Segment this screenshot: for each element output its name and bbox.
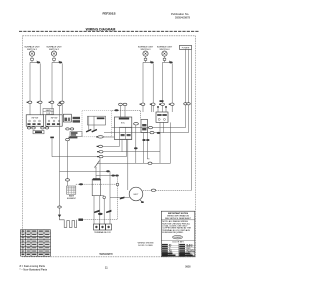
wire relay drop 1 — [151, 103, 153, 112]
notes box — [161, 211, 195, 257]
wire L2 feed lower — [191, 103, 193, 190]
connector bus oven select — [97, 155, 103, 157]
wire relay drop 4 — [170, 122, 172, 163]
splice on bake wire — [79, 183, 83, 185]
node P7 label — [78, 219, 83, 221]
wire thermostat connector lead — [103, 136, 114, 138]
connector right of EOC — [134, 123, 139, 125]
limiter fuse for SU3 — [144, 56, 147, 62]
connector plug on SU4 right wire — [169, 103, 174, 105]
connector plug on SU1 left wire — [27, 101, 32, 103]
surface unit SU3 label — [138, 45, 154, 50]
svg-text:# = Fast-moving Parts: # = Fast-moving Parts — [20, 264, 46, 268]
connector plug on SU1 right wire — [37, 101, 42, 103]
wire EOC aux drop — [135, 125, 137, 163]
wire L2 feed — [191, 49, 193, 103]
svg-text:SWITCH 4: SWITCH 4 — [160, 49, 171, 51]
terminal block TB1 — [94, 224, 112, 230]
limiter fuse for SU1 — [31, 56, 34, 62]
splice on thermostat wire — [115, 109, 119, 111]
wire sensor bottom extension — [101, 195, 105, 197]
wire oven feed long left — [59, 104, 61, 215]
svg-text:LEGEND: LEGEND — [174, 237, 182, 239]
svg-text:WIRING DIAGRAM: WIRING DIAGRAM — [86, 27, 116, 31]
electronic oven control U1 — [114, 117, 131, 140]
svg-text:SWITCH 1: SWITCH 1 — [27, 49, 38, 51]
component receptacle R1 — [63, 114, 71, 122]
connector plug on SU3 right wire — [150, 103, 155, 105]
node junction circle lower — [103, 196, 106, 199]
svg-text:0608: 0608 — [185, 265, 191, 268]
svg-text:INF SW: INF SW — [32, 117, 39, 119]
connector bake feed top — [66, 138, 70, 140]
surface unit SU1 element circle — [29, 51, 34, 56]
connector on L1 feed — [184, 103, 188, 105]
oven sensor box — [92, 178, 101, 196]
connector below thermostat — [96, 136, 103, 138]
splice right of lower bus — [157, 132, 161, 134]
svg-text:5995409878: 5995409878 — [99, 253, 113, 256]
wire stub connector B — [33, 125, 35, 128]
wire N feed — [188, 49, 190, 103]
wire motor lead left — [110, 196, 130, 198]
switch contact for SU3 — [143, 61, 154, 64]
svg-text:POWER: POWER — [182, 48, 190, 50]
connector plug on SU2 left wire — [49, 101, 54, 103]
switch contact for SU2 — [52, 61, 62, 64]
connector above terminal block — [98, 213, 103, 215]
wire node drop — [103, 199, 105, 224]
svg-text:11: 11 — [105, 266, 108, 270]
wire sensor feed b — [99, 158, 101, 180]
relay box K1 — [141, 120, 148, 133]
infinite switch S1 — [26, 115, 43, 126]
wire top rule — [19, 30, 200, 32]
svg-text:COLOR KEY: COLOR KEY — [172, 241, 184, 243]
connector on right upper bus — [149, 126, 153, 128]
power terminal block P1 — [180, 45, 192, 49]
node splice tee — [50, 137, 54, 157]
wiper arrow right — [106, 210, 111, 213]
wire sensor out b — [99, 196, 101, 224]
relay box K2 — [156, 112, 168, 122]
svg-text:5995409878: 5995409878 — [175, 15, 190, 19]
component oven light assembly — [69, 132, 82, 139]
node wiring note label — [138, 242, 154, 246]
limiter fuse for SU4 — [163, 56, 166, 62]
splice on K1 drop — [142, 139, 145, 141]
wire pin2 bus right — [122, 151, 160, 153]
connector mid oven feed — [58, 206, 62, 208]
connector on motor bus — [148, 162, 152, 164]
wire stub connector A — [28, 125, 30, 128]
connector column A — [97, 145, 103, 147]
splice on K1 drop 2 — [146, 139, 149, 141]
wire EOC pin4 — [127, 140, 129, 191]
wire bus oven select — [52, 156, 99, 158]
svg-text:* – Non-Illustrated Parts: * – Non-Illustrated Parts — [20, 268, 48, 272]
svg-text:FUSES AS REQUIRED.: FUSES AS REQUIRED. — [162, 231, 184, 234]
wire from bake element right — [76, 183, 116, 185]
connector plug on SU4 left wire — [159, 103, 164, 105]
splice end of left feed — [58, 215, 61, 218]
surface unit SU1 label — [24, 45, 40, 50]
wire motor bus — [97, 162, 171, 164]
svg-text:DOOR CLOSED: DOOR CLOSED — [138, 245, 153, 247]
oven selector inner box — [88, 116, 106, 125]
connector top of oven feed — [58, 104, 62, 106]
node junction circle motor — [116, 183, 119, 186]
wire K1 drop 2 — [147, 133, 149, 159]
component connector stack — [73, 117, 80, 123]
switch contact for SU1 — [30, 61, 40, 64]
wire motor drop to block — [109, 197, 111, 224]
svg-text:FEF351S: FEF351S — [102, 11, 115, 15]
connector on motor right lead — [151, 189, 155, 191]
wire K1 drop — [143, 133, 145, 164]
wire N feed lower — [188, 105, 190, 133]
bake element E1 — [67, 186, 77, 200]
wiper arrow left — [94, 210, 99, 213]
wire sensor out a — [93, 196, 95, 224]
wire lower bus A — [60, 170, 109, 172]
connector EOC stub 1 — [119, 103, 123, 105]
wire from SU2 switch down — [61, 63, 63, 114]
connector on right lower bus — [150, 131, 154, 133]
wiring chart table — [20, 230, 50, 257]
switch contact for SU4 — [163, 61, 173, 64]
wire from SU3 left terminal down — [142, 62, 144, 112]
svg-text:INF SW: INF SW — [51, 117, 58, 119]
wire from SU1 switch down — [39, 63, 41, 114]
wire from SU4 switch down — [171, 63, 173, 112]
infinite switch S2 — [46, 115, 62, 126]
node label smudge — [160, 100, 164, 102]
switch wiper diagonal — [95, 161, 100, 168]
row of output connectors — [27, 127, 74, 130]
door switch plug — [60, 217, 77, 227]
connector plug on SU3 left wire — [140, 103, 145, 105]
svg-text:SWITCH 3: SWITCH 3 — [141, 49, 152, 51]
splice pair on lower bus — [111, 175, 118, 177]
wire from SU4 left terminal down — [162, 62, 164, 112]
wire from SU3 switch down — [152, 63, 154, 112]
wire EOC pin3 drop — [126, 140, 128, 157]
svg-text:EOC: EOC — [121, 122, 126, 124]
connector on N feed — [187, 103, 191, 105]
limiter fuse for SU2 — [53, 56, 56, 62]
wire K2 pin stub 2 — [165, 106, 167, 112]
svg-text:SEE SERVICE DATA SHEET: SEE SERVICE DATA SHEET — [165, 217, 192, 220]
connector plug on SU2 right wire — [59, 101, 64, 103]
junction label box — [43, 109, 54, 116]
wire bus right upper — [112, 127, 186, 129]
wire from SU1 left terminal down — [29, 62, 31, 114]
wire relay drop 3 — [163, 122, 165, 132]
surface unit SU2 element circle — [51, 51, 56, 56]
labelled plug box P2 — [33, 130, 44, 133]
wire EOC top stub 2 — [124, 106, 126, 118]
wire EOC top stub 1 — [120, 106, 122, 118]
node publication number header — [171, 12, 190, 19]
splice on lower bus A — [106, 170, 110, 172]
motor M1 — [129, 187, 144, 203]
splice arrow on motor lead — [120, 197, 125, 200]
wire EOC pin1 — [103, 140, 120, 147]
svg-text:SWITCH 2: SWITCH 2 — [49, 49, 60, 51]
wire bus oven select right — [103, 156, 126, 158]
connector column B — [97, 151, 103, 153]
wire relay drop 2 — [159, 122, 161, 163]
surface unit SU2 label — [46, 45, 62, 50]
wire lower bus B — [96, 175, 118, 177]
svg-text:ELEMENT: ELEMENT — [67, 198, 77, 200]
connector EOC stub 2 — [123, 103, 127, 105]
svg-text:MOT: MOT — [134, 194, 140, 196]
wire sensor feed a — [95, 167, 97, 179]
wire L1 feed lower — [185, 105, 187, 128]
wire bake feed — [67, 141, 69, 186]
surface unit SU4 label — [157, 45, 173, 50]
wire L1 feed — [185, 49, 187, 103]
oven thermostat assembly dashed box — [82, 111, 112, 137]
wire motor feed left — [109, 171, 111, 197]
wire EOC pin2 — [103, 140, 122, 152]
splice on EOC aux drop — [134, 147, 138, 149]
connector on bake feed — [66, 179, 70, 181]
svg-text:MAIN: MAIN — [46, 109, 52, 112]
wire door circuit — [83, 176, 117, 220]
surface unit SU3 element circle — [143, 51, 148, 56]
wire motor right lead — [143, 189, 192, 191]
selector wiper contacts — [86, 116, 97, 132]
wire from SU2 left terminal down — [51, 62, 53, 114]
svg-text:TERMINAL BLOCK: TERMINAL BLOCK — [94, 231, 111, 234]
surface unit SU4 element circle — [162, 51, 167, 56]
wire K2 pin stub 1 — [157, 106, 159, 112]
wire thermostat to K1 — [112, 110, 141, 119]
wire diagram frame — [23, 36, 196, 257]
wire bus right lower — [104, 132, 189, 134]
